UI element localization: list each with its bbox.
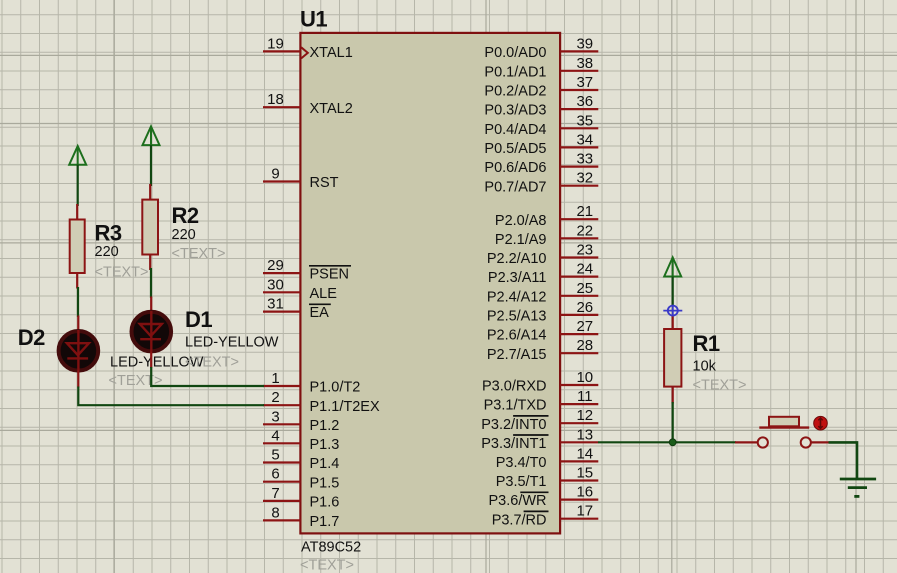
svg-text:P1.1/T2EX: P1.1/T2EX (310, 399, 380, 415)
pin 31 (EA) (263, 296, 331, 322)
wire D2 to pin 2 (78, 387, 264, 406)
svg-text:P3.5/T1: P3.5/T1 (496, 474, 547, 490)
svg-text:ALE: ALE (310, 286, 338, 302)
wire power arrow to R3 (77, 165, 79, 206)
svg-text:3: 3 (271, 408, 279, 425)
pin 32 (P0.7/AD7) (484, 170, 598, 196)
svg-text:26: 26 (576, 299, 593, 316)
pin 16 (P3.6/WR) (488, 484, 598, 510)
junction node (669, 439, 676, 446)
svg-text:35: 35 (576, 112, 593, 129)
svg-text:39: 39 (576, 35, 593, 52)
svg-text:18: 18 (267, 91, 284, 108)
power symbol (arrow) above R2 (143, 126, 160, 145)
svg-text:33: 33 (576, 151, 593, 168)
svg-text:22: 22 (576, 222, 593, 239)
svg-text:<TEXT>: <TEXT> (693, 378, 747, 394)
svg-text:19: 19 (267, 35, 284, 52)
svg-text:R1: R1 (693, 331, 720, 356)
wire marker to R1 (red lead) (672, 315, 674, 330)
svg-text:P2.0/A8: P2.0/A8 (495, 213, 547, 229)
svg-text:5: 5 (271, 447, 279, 464)
svg-text:AT89C52: AT89C52 (301, 540, 361, 556)
pin 27 (P2.6/A14) (487, 318, 598, 344)
svg-text:37: 37 (576, 74, 593, 91)
svg-text:9: 9 (271, 166, 279, 183)
svg-text:32: 32 (576, 170, 593, 187)
op-amp U1 body (AT89C52 microcontroller) (300, 33, 560, 534)
pin 25 (P2.4/A12) (487, 280, 598, 306)
svg-text:29: 29 (267, 257, 284, 274)
pin 15 (P3.5/T1) (496, 465, 599, 491)
svg-text:PSEN: PSEN (310, 267, 350, 283)
svg-text:XTAL2: XTAL2 (310, 101, 353, 117)
svg-text:P1.4: P1.4 (310, 456, 340, 472)
pin 26 (P2.5/A13) (487, 299, 598, 325)
pin 17 (P3.7/RD) (492, 503, 599, 529)
svg-text:P1.3: P1.3 (310, 437, 340, 453)
svg-text:P1.2: P1.2 (310, 418, 340, 434)
pin 36 (P0.3/AD3) (484, 93, 598, 119)
wire R1 to junction (672, 402, 674, 442)
svg-text:P0.5/AD5: P0.5/AD5 (484, 141, 546, 157)
svg-text:P1.7: P1.7 (310, 514, 340, 530)
svg-text:10k: 10k (693, 358, 717, 374)
ground (840, 479, 876, 496)
svg-text:D2: D2 (18, 325, 45, 350)
node marker (blue origin cross) (663, 305, 682, 317)
svg-text:P0.7/AD7: P0.7/AD7 (484, 179, 546, 195)
svg-text:P1.5: P1.5 (310, 475, 340, 491)
svg-text:24: 24 (576, 261, 593, 278)
resistor R2 (142, 184, 158, 270)
wire D1 to pin 1 (151, 367, 264, 386)
svg-text:30: 30 (267, 276, 284, 293)
svg-text:P0.1/AD1: P0.1/AD1 (484, 64, 546, 80)
pin 6 (P1.5) (263, 466, 339, 492)
pin 3 (P1.2) (263, 408, 339, 434)
pin 39 (P0.0/AD0) (484, 35, 598, 61)
pin 11 (P3.1/TXD) (484, 388, 599, 414)
wire power arrow to marker (672, 277, 674, 307)
pin 2 (P1.1/T2EX) (263, 389, 380, 415)
pin 35 (P0.4/AD4) (484, 112, 598, 138)
pin 34 (P0.5/AD5) (484, 131, 598, 157)
pin 29 (PSEN) (263, 257, 351, 283)
svg-text:<TEXT>: <TEXT> (95, 265, 149, 281)
svg-text:P0.2/AD2: P0.2/AD2 (484, 84, 546, 100)
pin 24 (P2.3/A11) (488, 261, 598, 287)
svg-text:<TEXT>: <TEXT> (300, 558, 354, 573)
svg-text:U1: U1 (300, 6, 327, 31)
svg-text:P1.0/T2: P1.0/T2 (310, 380, 361, 396)
wire pin 13 to button (598, 441, 736, 443)
svg-text:P0.0/AD0: P0.0/AD0 (484, 45, 546, 61)
svg-text:27: 27 (576, 318, 593, 335)
svg-text:36: 36 (576, 93, 593, 110)
pin 18 (XTAL2) (263, 91, 353, 117)
svg-text:1: 1 (271, 370, 279, 387)
pin 4 (P1.3) (263, 427, 339, 453)
pin 14 (P3.4/T0) (496, 445, 599, 471)
svg-text:28: 28 (576, 337, 593, 354)
svg-text:16: 16 (576, 484, 593, 501)
svg-text:D1: D1 (185, 307, 212, 332)
resistor R1 (664, 329, 681, 404)
wire R3 to D2 (77, 287, 79, 317)
svg-text:P2.6/A14: P2.6/A14 (487, 328, 547, 344)
svg-text:P2.3/A11: P2.3/A11 (488, 270, 547, 286)
svg-text:P3.6/WR: P3.6/WR (488, 493, 546, 509)
svg-text:RST: RST (310, 175, 339, 191)
svg-text:P3.3/INT1: P3.3/INT1 (481, 436, 546, 452)
svg-text:P2.2/A10: P2.2/A10 (487, 251, 547, 267)
svg-text:P2.5/A13: P2.5/A13 (487, 309, 547, 325)
svg-text:P3.2/INT0: P3.2/INT0 (481, 417, 546, 433)
LED D1 (132, 297, 172, 369)
svg-text:P0.4/AD4: P0.4/AD4 (484, 122, 546, 138)
button actuator red dot (814, 416, 828, 430)
svg-text:8: 8 (271, 504, 279, 521)
svg-text:220: 220 (95, 244, 119, 260)
pin 37 (P0.2/AD2) (484, 74, 598, 100)
svg-text:XTAL1: XTAL1 (310, 45, 353, 61)
svg-text:7: 7 (271, 485, 279, 502)
svg-text:P3.1/TXD: P3.1/TXD (484, 398, 547, 414)
svg-text:R3: R3 (95, 221, 122, 246)
pin 9 (RST) (263, 166, 339, 192)
svg-text:P3.0/RXD: P3.0/RXD (482, 379, 546, 395)
svg-text:<TEXT>: <TEXT> (172, 246, 226, 262)
svg-text:4: 4 (271, 427, 279, 444)
pin 22 (P2.1/A9) (495, 222, 598, 248)
svg-text:P3.4/T0: P3.4/T0 (496, 455, 547, 471)
svg-text:12: 12 (576, 407, 593, 424)
svg-text:11: 11 (577, 388, 593, 405)
svg-text:EA: EA (310, 305, 330, 321)
svg-text:15: 15 (576, 465, 593, 482)
wire power arrow to R2 (150, 145, 152, 186)
svg-text:17: 17 (576, 503, 593, 520)
pin 28 (P2.7/A15) (487, 337, 598, 363)
svg-text:P1.6: P1.6 (310, 495, 340, 511)
svg-text:38: 38 (576, 55, 593, 72)
svg-text:23: 23 (576, 242, 593, 259)
pin 21 (P2.0/A8) (495, 203, 598, 229)
pin 12 (P3.2/INT0) (481, 407, 598, 433)
svg-text:P0.3/AD3: P0.3/AD3 (484, 103, 546, 119)
svg-text:14: 14 (576, 445, 593, 462)
svg-text:2: 2 (271, 389, 279, 406)
svg-text:R2: R2 (172, 203, 199, 228)
svg-text:21: 21 (576, 203, 593, 220)
LED D2 (59, 316, 99, 388)
svg-text:<TEXT>: <TEXT> (185, 355, 239, 371)
svg-text:34: 34 (576, 131, 593, 148)
svg-text:6: 6 (271, 466, 279, 483)
pin 38 (P0.1/AD1) (484, 55, 598, 81)
pin 7 (P1.6) (263, 485, 339, 511)
svg-text:10: 10 (576, 369, 593, 386)
svg-text:P0.6/AD6: P0.6/AD6 (484, 160, 546, 176)
pin 23 (P2.2/A10) (487, 242, 598, 268)
power symbol (arrow) above R3 (69, 146, 86, 165)
svg-text:31: 31 (267, 296, 284, 313)
svg-text:P2.1/A9: P2.1/A9 (495, 232, 547, 248)
pin 33 (P0.6/AD6) (484, 151, 598, 177)
pin 10 (P3.0/RXD) (482, 369, 598, 395)
pin 8 (P1.7) (263, 504, 339, 530)
svg-text:P3.7/RD: P3.7/RD (492, 512, 547, 528)
svg-text:LED-YELLOW: LED-YELLOW (185, 335, 279, 351)
svg-text:220: 220 (172, 227, 196, 243)
svg-text:P2.4/A12: P2.4/A12 (487, 289, 547, 305)
svg-text:13: 13 (576, 426, 593, 443)
push button (switch) (735, 417, 829, 448)
pin 30 (ALE) (263, 276, 337, 302)
resistor R3 (70, 204, 85, 289)
wire R2 to D1 (150, 268, 152, 298)
svg-text:P2.7/A15: P2.7/A15 (487, 347, 547, 363)
wire button to ground (829, 442, 858, 479)
pin 19 (XTAL1) (263, 35, 353, 61)
power symbol (arrow) above R1 (664, 257, 681, 276)
pin 13 (P3.3/INT1) (481, 426, 598, 452)
pin 1 (P1.0/T2) (263, 370, 360, 396)
pin 5 (P1.4) (263, 447, 339, 473)
svg-text:25: 25 (576, 280, 593, 297)
